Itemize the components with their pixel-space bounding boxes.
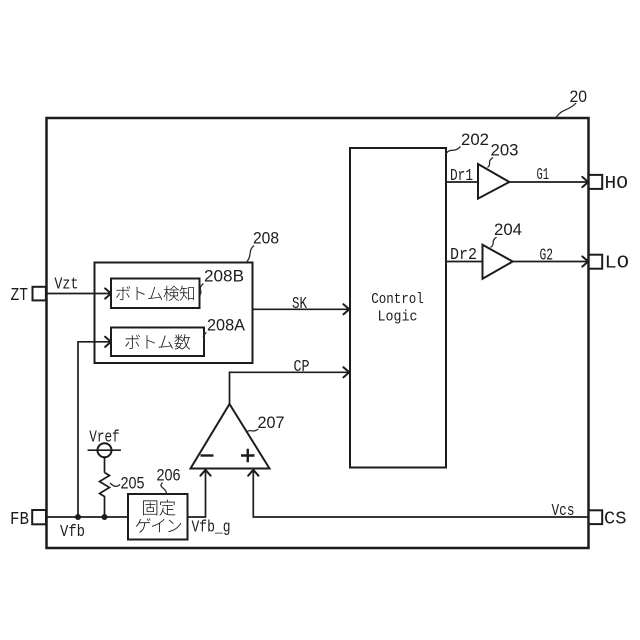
- svg-text:Dr1: Dr1: [450, 167, 473, 186]
- svg-text:ZT: ZT: [11, 285, 29, 306]
- text kotei (fixed) line1: [143, 500, 175, 516]
- current source Vref circle: [98, 443, 112, 457]
- leader 208A: [203, 333, 206, 342]
- current source bar: [88, 449, 121, 451]
- svg-text:Vzt: Vzt: [54, 276, 78, 295]
- port CS: [589, 510, 603, 524]
- svg-text:SK: SK: [292, 295, 308, 314]
- comparator 207 triangle: [191, 404, 270, 469]
- port ZT: [33, 287, 46, 301]
- svg-text:G1: G1: [537, 166, 550, 185]
- minus input symbol: [201, 454, 214, 456]
- wire Vfb up to 208A: [78, 342, 110, 517]
- svg-text:CP: CP: [294, 358, 310, 377]
- wire CS to plus input: [253, 470, 588, 517]
- text botomu-kenchi (bottom detect): [116, 286, 194, 301]
- junction dot at x104.5: [102, 514, 108, 520]
- svg-text:204: 204: [494, 220, 522, 239]
- svg-text:205: 205: [121, 474, 145, 493]
- wire Dr2: [446, 261, 483, 263]
- svg-text:FB: FB: [10, 509, 29, 530]
- svg-text:LO: LO: [605, 253, 630, 274]
- svg-text:206: 206: [157, 466, 181, 485]
- buffer 204: [483, 245, 513, 279]
- wire G2 to LO: [513, 261, 588, 263]
- leader 205: [110, 483, 120, 486]
- port HO: [589, 175, 603, 189]
- leader 202: [447, 147, 461, 154]
- text gain line2: [136, 518, 181, 533]
- wire FB to 206: [46, 516, 128, 518]
- svg-text:202: 202: [461, 130, 489, 149]
- svg-text:Vfb_g: Vfb_g: [192, 519, 231, 538]
- leader 20: [556, 103, 576, 118]
- port FB: [32, 510, 46, 524]
- wire G1 to HO: [509, 181, 587, 183]
- svg-text:Vref: Vref: [89, 429, 120, 448]
- wire source to resistor: [104, 457, 106, 472]
- leader 207: [247, 429, 259, 432]
- svg-text:20: 20: [570, 87, 588, 106]
- svg-text:Control: Control: [371, 291, 424, 308]
- block 206 fixed gain: [128, 494, 188, 540]
- wire ZT to 208B: [46, 293, 110, 295]
- svg-text:Vcs: Vcs: [552, 502, 575, 521]
- plus input symbol: [241, 449, 255, 463]
- svg-text:203: 203: [491, 141, 519, 160]
- svg-text:208A: 208A: [207, 316, 246, 335]
- leader 208B: [200, 284, 204, 296]
- leader 208: [247, 246, 254, 262]
- svg-text:207: 207: [258, 413, 285, 432]
- block 208A: [111, 328, 204, 357]
- svg-text:Vfb: Vfb: [60, 523, 85, 542]
- svg-text:CS: CS: [604, 509, 627, 530]
- text botomu-suu (bottom count): [125, 334, 190, 349]
- wire CP: comparator to control: [230, 372, 349, 404]
- resistor 205 zigzag: [100, 473, 110, 518]
- wire 206 out to minus input: [188, 470, 206, 517]
- block 208B: [111, 279, 200, 309]
- wire SK: 208 to control: [253, 308, 349, 310]
- port LO: [589, 255, 603, 269]
- junction dot at x78: [75, 514, 81, 520]
- wire Dr1: [446, 181, 478, 183]
- leader 204: [491, 237, 497, 248]
- svg-text:Dr2: Dr2: [450, 246, 477, 265]
- IC outer box 20: [47, 118, 589, 548]
- svg-text:208B: 208B: [204, 267, 244, 286]
- leader 206: [161, 483, 167, 494]
- buffer 203: [478, 164, 509, 199]
- svg-text:G2: G2: [540, 246, 554, 265]
- Control Logic block 202: [350, 148, 446, 468]
- svg-text:HO: HO: [605, 173, 629, 194]
- leader 203: [488, 158, 494, 168]
- block 208 (group): [95, 263, 253, 364]
- svg-text:208: 208: [253, 229, 279, 248]
- svg-text:Logic: Logic: [378, 309, 418, 326]
